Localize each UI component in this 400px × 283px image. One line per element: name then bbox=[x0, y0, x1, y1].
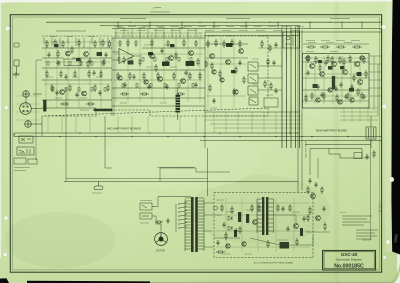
transistor Q34 bbox=[311, 194, 316, 199]
wire bbox=[205, 115, 302, 117]
resistor R8 bbox=[46, 70, 48, 78]
wire bbox=[42, 57, 64, 59]
wire bbox=[213, 22, 215, 28]
capacitor C36 bbox=[362, 94, 365, 100]
resistor R99 bbox=[309, 206, 311, 215]
microphone jack J1 bbox=[23, 91, 30, 98]
scan black right edge bbox=[391, 0, 400, 255]
wire bbox=[112, 51, 119, 53]
transistor Q26 bbox=[338, 100, 342, 104]
wire bbox=[199, 32, 201, 102]
resistor R10 bbox=[74, 70, 76, 78]
resistor R90 bbox=[216, 251, 225, 253]
wire bbox=[293, 198, 295, 252]
wire bbox=[323, 56, 325, 104]
driver coil L2 bbox=[332, 76, 335, 89]
resistor R38 bbox=[223, 40, 225, 48]
resistor R11 bbox=[88, 70, 90, 78]
wire bbox=[72, 57, 112, 59]
label tiny B bbox=[50, 36, 57, 38]
electrolytic capacitor C29 bbox=[328, 66, 333, 70]
capacitor C12 bbox=[274, 88, 277, 94]
wire bbox=[105, 116, 112, 168]
wire bbox=[44, 41, 110, 43]
switch contact marks bbox=[19, 149, 30, 154]
transistor Q11 bbox=[226, 60, 231, 65]
transistor Q14 bbox=[320, 72, 325, 77]
wire bbox=[281, 30, 283, 148]
wire bbox=[51, 38, 53, 47]
wire bbox=[340, 119, 378, 121]
electrolytic capacitor C41 bbox=[170, 44, 175, 47]
capacitor C15 bbox=[339, 82, 342, 88]
wire bbox=[245, 22, 247, 28]
transistor Q21 bbox=[118, 76, 122, 80]
resistor R68 bbox=[123, 56, 125, 64]
wire bbox=[115, 29, 117, 39]
wire bbox=[16, 111, 40, 113]
resistor R35 bbox=[176, 93, 185, 95]
capacitor C27 bbox=[344, 94, 347, 100]
node bbox=[301, 136, 302, 137]
wire bbox=[127, 32, 129, 102]
wire bbox=[131, 29, 133, 39]
wire bbox=[147, 29, 149, 39]
electrolytic capacitor C10 bbox=[43, 100, 46, 112]
rec/play switch S2-2 bbox=[248, 74, 258, 83]
wire bbox=[367, 108, 369, 122]
wire bbox=[179, 29, 181, 39]
rectifier diode D1 bbox=[228, 216, 232, 220]
wire bbox=[263, 112, 265, 133]
transistor Q13 bbox=[310, 64, 315, 69]
bias osc parts bbox=[285, 34, 296, 46]
wire bbox=[45, 40, 47, 108]
transistor Q12 bbox=[239, 49, 244, 54]
transistor Q17 bbox=[354, 61, 359, 66]
resistor R101 bbox=[373, 150, 375, 158]
punch hole 1 bbox=[5, 26, 10, 31]
wire bbox=[213, 112, 215, 133]
resistor R67 bbox=[103, 58, 105, 66]
wire bbox=[207, 148, 209, 196]
wire bbox=[256, 199, 258, 233]
wire bbox=[114, 79, 203, 81]
capacitor C6 bbox=[75, 92, 78, 98]
wire bbox=[155, 29, 157, 39]
electrolytic capacitor C20 bbox=[162, 62, 170, 67]
wire bbox=[299, 26, 301, 149]
wire bbox=[142, 47, 205, 49]
wire bbox=[216, 214, 310, 216]
capacitor C37 bbox=[166, 218, 169, 224]
punch hole 6 bbox=[382, 104, 387, 109]
wire bbox=[112, 59, 119, 61]
resistor R2 bbox=[54, 39, 56, 47]
wire bbox=[369, 87, 382, 89]
wire bbox=[275, 198, 277, 252]
punch hole 3 bbox=[4, 216, 8, 220]
node bbox=[297, 132, 298, 133]
switch arrows bbox=[250, 64, 256, 103]
resistor R44 bbox=[307, 55, 309, 63]
wire bbox=[341, 56, 343, 104]
wire bbox=[114, 32, 203, 34]
oscillator transformer T2 core bbox=[262, 197, 264, 235]
resistor R85 bbox=[233, 88, 235, 96]
resistor R31 bbox=[189, 72, 191, 80]
wire bbox=[304, 73, 368, 75]
wire bbox=[210, 123, 302, 125]
electrolytic capacitor C32 bbox=[349, 88, 354, 92]
capacitor C34 bbox=[274, 42, 277, 48]
resistor R58 bbox=[352, 46, 362, 48]
node bbox=[341, 22, 342, 23]
wire bbox=[152, 197, 191, 207]
wire bbox=[317, 158, 319, 178]
wire bbox=[309, 149, 311, 176]
wire bbox=[113, 38, 115, 117]
wire bbox=[329, 149, 362, 159]
wire bbox=[204, 202, 214, 204]
wire bbox=[134, 55, 143, 57]
bias trap L1 bbox=[264, 98, 278, 107]
wire bbox=[25, 97, 27, 105]
wire bbox=[205, 35, 300, 37]
wire bbox=[65, 88, 67, 182]
wire bbox=[41, 116, 43, 136]
svg-text:No.000185C: No.000185C bbox=[334, 263, 364, 269]
node bbox=[361, 22, 362, 23]
resistor R84 bbox=[209, 84, 211, 92]
wire bbox=[67, 40, 69, 108]
wire bbox=[257, 198, 259, 252]
resistor R5 bbox=[94, 40, 96, 48]
wire bbox=[115, 32, 117, 102]
note text block bbox=[342, 216, 378, 239]
wire bbox=[158, 166, 195, 168]
capacitor C41 bbox=[365, 154, 368, 160]
capacitor C16 bbox=[350, 84, 353, 90]
bias oscillator box bbox=[283, 32, 300, 48]
wire bbox=[286, 30, 288, 148]
resistor R100 bbox=[324, 222, 326, 231]
resistor R47 bbox=[339, 56, 341, 64]
wire bbox=[304, 57, 368, 59]
resistor R91 bbox=[261, 40, 263, 48]
wire bbox=[14, 136, 382, 138]
top tiny annotation rows bbox=[114, 27, 360, 41]
resistor R24 bbox=[183, 39, 185, 47]
wire bbox=[289, 112, 291, 133]
resistor R36 bbox=[207, 40, 209, 48]
wire bbox=[305, 144, 370, 146]
wire bbox=[369, 79, 382, 81]
transistor Q6 bbox=[169, 56, 174, 61]
wire bbox=[359, 56, 361, 104]
electrolytic capacitor C37 bbox=[318, 60, 322, 63]
capacitor C21 bbox=[132, 74, 135, 80]
capacitor C33 bbox=[216, 240, 219, 246]
resistor R80 bbox=[365, 70, 367, 78]
resistor R9 bbox=[60, 70, 62, 78]
resistor R59 bbox=[251, 204, 253, 212]
transistor Q9 bbox=[181, 79, 186, 84]
wire bbox=[351, 108, 353, 122]
wire bbox=[64, 181, 298, 183]
wire bbox=[377, 64, 379, 116]
resistor R42 bbox=[270, 82, 272, 90]
wire bbox=[177, 113, 179, 120]
wire bbox=[163, 116, 165, 133]
wire bbox=[177, 88, 179, 95]
svg-text:MAIN AMP 6BM8: MAIN AMP 6BM8 bbox=[305, 140, 308, 158]
capacitor C20 bbox=[92, 70, 95, 76]
wire bbox=[83, 38, 85, 49]
svg-text:A.C & POWER SUPPLY PRINT: A.C & POWER SUPPLY PRINT BOARD bbox=[254, 261, 294, 264]
capacitor C19 bbox=[64, 74, 67, 80]
wire bbox=[47, 116, 49, 133]
wire bbox=[258, 77, 282, 79]
resistor R50 bbox=[311, 92, 313, 100]
resistor R94 bbox=[357, 88, 359, 96]
resistor R78 bbox=[343, 58, 345, 66]
resistor R20 bbox=[127, 39, 129, 47]
resistor R60 bbox=[258, 204, 260, 212]
wire bbox=[290, 30, 292, 148]
resistor R72 bbox=[197, 58, 199, 66]
transistor Q5 bbox=[150, 54, 155, 59]
resistor R22 bbox=[151, 39, 153, 47]
wire bbox=[16, 103, 40, 105]
transistor Q18 bbox=[357, 79, 362, 84]
wire bbox=[117, 22, 119, 28]
punch hole 4 bbox=[3, 252, 7, 256]
punch hole 8 bbox=[386, 240, 391, 245]
resistor R56 bbox=[320, 46, 330, 48]
scan black bottom bar bbox=[27, 281, 150, 283]
wire bbox=[274, 215, 297, 224]
punch hole 5 bbox=[382, 25, 387, 30]
leaf switch S5 contacts bbox=[179, 203, 188, 229]
wire bbox=[373, 56, 375, 110]
transistor Q22 bbox=[144, 80, 148, 84]
wire bbox=[216, 246, 310, 248]
wire bbox=[277, 22, 279, 28]
node bbox=[245, 22, 246, 23]
wire bbox=[203, 199, 205, 251]
node bbox=[149, 22, 150, 23]
wire bbox=[42, 47, 112, 49]
wire bbox=[114, 53, 203, 55]
svg-text:Schematic Diagram: Schematic Diagram bbox=[336, 258, 363, 262]
wire bbox=[204, 214, 222, 216]
transistor Q15 bbox=[332, 62, 337, 67]
electrolytic capacitor C35 bbox=[234, 230, 237, 237]
capacitor C26 bbox=[334, 86, 337, 92]
resistor R87 bbox=[221, 204, 223, 212]
wire bbox=[112, 87, 205, 89]
transistor Q30 bbox=[306, 56, 310, 60]
wire bbox=[147, 116, 149, 133]
transistor Q4 bbox=[82, 91, 87, 96]
resistor R34 bbox=[140, 93, 149, 95]
wire bbox=[251, 112, 253, 133]
electrolytic capacitor C21 bbox=[186, 61, 195, 66]
capacitor C31 bbox=[238, 60, 241, 66]
wire bbox=[303, 77, 369, 79]
capacitor C3 bbox=[88, 58, 91, 64]
punch hole 9 bbox=[383, 256, 387, 260]
svg-text:MAIN AMP PRINT BOARD: MAIN AMP PRINT BOARD bbox=[316, 129, 347, 133]
wire bbox=[31, 123, 42, 125]
wire bbox=[314, 56, 316, 104]
switch S3 contacts bbox=[142, 205, 149, 216]
resistor R71 bbox=[175, 52, 177, 60]
resistor R53 bbox=[347, 92, 349, 100]
resistor R62 bbox=[289, 204, 291, 212]
resistor R49 bbox=[363, 56, 365, 64]
transistor Q25 bbox=[316, 98, 320, 102]
transistor Q3 bbox=[60, 90, 65, 95]
wire bbox=[214, 127, 302, 129]
wire bbox=[112, 37, 205, 39]
wire bbox=[204, 246, 214, 248]
wire bbox=[43, 38, 45, 45]
resistor R55 bbox=[306, 46, 316, 48]
label tiny H bbox=[216, 199, 224, 201]
electrolytic capacitor C30 bbox=[238, 212, 241, 222]
capacitor C17 bbox=[281, 206, 284, 212]
wire bbox=[111, 38, 113, 117]
electrolytic capacitor C31 bbox=[246, 214, 249, 223]
resistor R81 bbox=[225, 232, 227, 240]
wire bbox=[309, 22, 311, 28]
resistor R19 bbox=[119, 40, 121, 47]
wire bbox=[205, 31, 382, 33]
wire bbox=[46, 21, 382, 23]
wire bbox=[304, 95, 368, 97]
node bbox=[309, 22, 310, 23]
resistor R82 bbox=[267, 240, 269, 248]
transistor Q32 bbox=[350, 98, 354, 102]
wire bbox=[200, 140, 382, 142]
wire bbox=[75, 116, 77, 133]
svg-text:MIC AMP PRINT BOARD: MIC AMP PRINT BOARD bbox=[107, 127, 142, 131]
wire bbox=[44, 61, 110, 63]
capacitor C11 bbox=[194, 82, 197, 88]
transistor Q2 bbox=[84, 52, 89, 57]
wire bbox=[340, 115, 378, 117]
wire bbox=[369, 63, 382, 65]
capacitor C14 bbox=[316, 84, 319, 90]
wire bbox=[312, 236, 314, 245]
electrolytic capacitor C34 bbox=[231, 70, 236, 73]
wire bbox=[286, 26, 288, 149]
resistor R88 bbox=[231, 206, 233, 214]
label tiny D bbox=[208, 35, 215, 37]
wire bbox=[36, 59, 42, 61]
resistor R4 bbox=[78, 39, 80, 47]
wire bbox=[220, 36, 222, 108]
wire bbox=[67, 38, 69, 45]
shielded cable marker bbox=[94, 109, 113, 112]
wire bbox=[89, 40, 91, 108]
transformer T2 windings bbox=[257, 199, 274, 231]
wire bbox=[299, 30, 301, 148]
power transformer T1 primary bbox=[191, 197, 194, 252]
resistor R18 bbox=[86, 103, 95, 105]
resistor R69 bbox=[139, 58, 141, 66]
resistor R48 bbox=[349, 55, 351, 63]
wire bbox=[341, 22, 343, 28]
capacitor C40 bbox=[322, 206, 325, 212]
transistor Q28 bbox=[212, 70, 216, 74]
resistor R39 bbox=[231, 39, 233, 47]
wire bbox=[100, 25, 300, 27]
wire bbox=[370, 116, 372, 127]
bus junction dots bbox=[59, 22, 348, 138]
rec/play switch S2-3 bbox=[248, 86, 258, 95]
wire bbox=[16, 95, 40, 97]
electrolytic capacitor C26 bbox=[226, 43, 233, 47]
capacitor C39 bbox=[314, 182, 317, 188]
wire bbox=[44, 83, 110, 85]
wire bbox=[13, 133, 15, 137]
resistor R95 bbox=[305, 94, 307, 102]
transistor Q24 bbox=[234, 90, 238, 94]
transistor Q20 bbox=[294, 224, 299, 229]
rectifier diode D2 bbox=[228, 226, 232, 230]
pilot lamp PL1 bbox=[28, 159, 37, 164]
fuse holder F1 bbox=[14, 158, 26, 164]
wire bbox=[42, 67, 112, 69]
capacitor C35 bbox=[320, 92, 323, 98]
resistor R3 bbox=[62, 40, 64, 48]
wire bbox=[112, 28, 382, 30]
wire bbox=[204, 32, 206, 148]
wire bbox=[290, 26, 292, 149]
electrolytic capacitor C38 bbox=[54, 44, 59, 47]
wire bbox=[369, 95, 382, 97]
transistor Q27 bbox=[242, 242, 246, 246]
resistor R79 bbox=[353, 74, 355, 82]
scan black bottom left corner bbox=[0, 278, 9, 283]
resistor R25 bbox=[195, 40, 197, 47]
wire bbox=[340, 111, 378, 113]
wire bbox=[250, 238, 280, 245]
resistor R96 bbox=[155, 221, 163, 223]
resistor R64 bbox=[57, 50, 59, 58]
external speaker jack J4 bbox=[19, 136, 33, 143]
capacitor C28 bbox=[234, 228, 237, 234]
wire bbox=[369, 71, 382, 73]
wire bbox=[281, 26, 283, 149]
wire bbox=[205, 111, 300, 113]
transistor Q29 bbox=[226, 244, 230, 248]
wire bbox=[42, 99, 112, 101]
wire bbox=[370, 139, 372, 148]
resistor R7 bbox=[109, 40, 111, 48]
capacitor C2 bbox=[56, 60, 59, 66]
resistor R37 bbox=[215, 39, 217, 47]
resistor R29 bbox=[157, 72, 159, 80]
node bbox=[181, 22, 182, 23]
punch hole 7 bbox=[389, 177, 394, 182]
line input jack J3 bbox=[25, 121, 32, 128]
transformer T1 windings bbox=[185, 198, 204, 249]
wire bbox=[295, 26, 297, 149]
